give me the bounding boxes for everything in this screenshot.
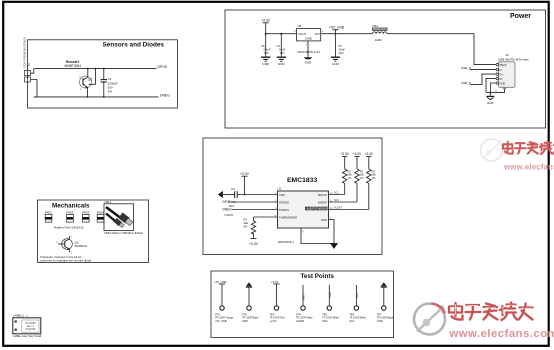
svg-text:TP4: TP4: [296, 313, 301, 317]
wire shield to gnd: [486, 87, 506, 93]
svg-text:Mechanicals: Mechanicals: [52, 203, 90, 210]
resistor R3: [355, 157, 365, 202]
svg-text:16V: 16V: [339, 51, 344, 55]
svg-text:J1: J1: [28, 62, 31, 66]
wire U5 gnd stub: [307, 41, 309, 57]
svg-text:GND: GND: [305, 37, 313, 41]
svg-text:LABEL Assy Very Small: LABEL Assy Very Small: [13, 334, 42, 338]
svg-text:VBUS: VBUS: [500, 63, 507, 67]
test point TP7: [377, 283, 394, 323]
Mechanicals box: [38, 200, 149, 263]
svg-text:SDA: SDA: [334, 199, 339, 202]
svg-text:D+: D+: [500, 73, 504, 77]
svg-text:1: 1: [56, 241, 58, 244]
svg-text:PAD3: PAD3: [82, 211, 89, 215]
svg-text:TP7: TP7: [377, 313, 382, 317]
svg-text:PAD2: PAD2: [66, 211, 73, 215]
svg-text:DP/DN2: DP/DN2: [279, 200, 289, 204]
wire VDD: [237, 194, 277, 196]
svg-text:2: 2: [305, 44, 307, 47]
test point TP3: [270, 280, 286, 323]
svg-text:GND: GND: [500, 81, 506, 85]
wire THERM/ADDR: [224, 213, 278, 217]
svg-text:U1: U1: [278, 187, 282, 191]
svg-text:customer to evaluate the remot: customer to evaluate the remote diode: [40, 259, 92, 263]
wire +3.3V rail: [266, 23, 297, 34]
ground J2: [486, 93, 494, 105]
note text transistor: [40, 255, 92, 263]
wire FB1 to J2 VBUS: [387, 34, 496, 65]
svg-text:2N3904A: 2N3904A: [75, 244, 88, 248]
svg-text:TP1: TP1: [215, 313, 220, 317]
resistor R5: [366, 157, 376, 210]
svg-text:PAD4: PAD4: [97, 211, 104, 215]
svg-text:VDD: VDD: [279, 193, 285, 197]
watermark logo bottom right: [414, 304, 445, 335]
svg-text:TP6: TP6: [349, 313, 354, 317]
svg-text:FB1: FB1: [373, 24, 379, 28]
EMC1833 title: [287, 177, 317, 184]
connector J1: [23, 37, 31, 82]
node DPOS: [223, 200, 232, 204]
pad PAD1: [45, 211, 52, 222]
capacitor C1: [101, 68, 118, 98]
wire SMCLK: [329, 192, 345, 195]
ground C6: [261, 57, 270, 66]
Mechanicals title: [52, 203, 90, 210]
power flag +3.3V at VDD: [240, 172, 250, 195]
resistor R2: [342, 157, 352, 195]
wire ID to gnd net: [486, 79, 496, 93]
node DPOS: [158, 65, 168, 69]
svg-text:USB A Male to USB Micro-B Male: USB A Male to USB Micro-B Male: [104, 231, 143, 235]
svg-text:PAD1: PAD1: [45, 211, 52, 215]
svg-text:DPOS: DPOS: [223, 200, 232, 204]
svg-text:GND: GND: [332, 62, 340, 66]
svg-text:9: 9: [302, 232, 304, 234]
svg-text:LABEL1: LABEL1: [13, 314, 24, 318]
svg-text:Sensors and Diodes: Sensors and Diodes: [103, 42, 165, 49]
node +5V_USB flag: [329, 26, 345, 35]
svg-text:Q1: Q1: [88, 77, 92, 81]
power flag +3.3V inverted at R1: [249, 239, 259, 246]
svg-text:MMBT3904: MMBT3904: [65, 64, 82, 68]
node USB_P: [461, 81, 471, 85]
watermark CJK glyphs mid right (tile): [503, 141, 554, 154]
op chip U1 EMC1833: [275, 187, 333, 245]
svg-text:www.elecfans.com: www.elecfans.com: [503, 163, 554, 172]
watermark www.elecfans.com bottom right: [449, 328, 554, 340]
node DNEG: [223, 208, 233, 212]
Sensors and Diodes box: [28, 40, 178, 108]
pad PAD2: [66, 211, 73, 222]
Sensors and Diodes title: [103, 42, 165, 49]
label Remote1 MMBT3904: [65, 60, 82, 68]
svg-text:GND: GND: [487, 101, 495, 105]
wire bottom pin routing: [301, 228, 335, 244]
svg-text:+5V_USB: +5V_USB: [215, 319, 227, 323]
capacitor C6: [261, 33, 271, 57]
svg-text:GND: GND: [278, 62, 286, 66]
svg-text:DNEG: DNEG: [160, 93, 170, 97]
svg-text:TP5: TP5: [322, 313, 327, 317]
watermark logo mid right (faint tile): [481, 139, 503, 161]
svg-text:GND: GND: [305, 60, 313, 64]
svg-text:5%: 5%: [108, 90, 113, 94]
Power title: [510, 13, 531, 20]
watermark www.elecfans.com mid right (tile): [503, 163, 554, 172]
svg-text:USB_P: USB_P: [461, 81, 471, 85]
svg-text:SDA: SDA: [322, 319, 328, 323]
svg-text:DNEG: DNEG: [223, 208, 233, 212]
wire GND pin routing: [329, 220, 335, 244]
pad PAD4: [97, 211, 104, 222]
pullup rail flags +3.3V x3: [340, 152, 373, 156]
connector J2: [496, 53, 529, 87]
wire bottom rail DNEG: [34, 96, 159, 98]
Test Points box: [211, 271, 394, 338]
wire GND pin down: [491, 83, 496, 92]
svg-text:Rubber Feet SJ61A12: Rubber Feet SJ61A12: [54, 225, 84, 229]
label LABEL1: [13, 314, 42, 338]
regulator U5: [294, 24, 324, 54]
wire DN/DP1: [232, 209, 278, 211]
svg-text:ALERT: ALERT: [334, 207, 342, 210]
svg-text:+5V_USB: +5V_USB: [329, 26, 345, 30]
svg-text:USB_N: USB_N: [461, 66, 471, 70]
svg-text:SCL: SCL: [355, 292, 359, 298]
transistor Q2: [56, 236, 88, 255]
svg-text:Alert: Alert: [302, 294, 306, 300]
svg-text:EMC1833-1: EMC1833-1: [278, 240, 294, 244]
capacitor C4: [277, 33, 286, 57]
test point TP4: [296, 285, 313, 323]
svg-text:+3.3V: +3.3V: [261, 19, 271, 23]
capacitor C3: [223, 187, 238, 208]
svg-text:THERM: THERM: [224, 213, 233, 217]
ground C4: [277, 57, 286, 66]
svg-text:+3.3V: +3.3V: [340, 152, 349, 156]
svg-text:GND: GND: [262, 62, 270, 66]
svg-text:SMCLK: SMCLK: [318, 193, 327, 197]
svg-text:+3.3V: +3.3V: [270, 319, 277, 323]
svg-text:SN12345: SN12345: [25, 328, 36, 331]
svg-text:+3.3V: +3.3V: [249, 242, 259, 246]
svg-text:ID: ID: [500, 77, 503, 81]
svg-text:+3.3V: +3.3V: [271, 280, 279, 284]
EMC1833 box: [203, 138, 382, 255]
wire DP/DN2: [232, 201, 278, 203]
label cable: [104, 231, 143, 235]
svg-text:USB MICRO B Female: USB MICRO B Female: [498, 57, 529, 61]
svg-text:16V: 16V: [280, 51, 285, 55]
svg-text:SCL: SCL: [334, 192, 339, 195]
wire connector pin1 to top rail: [31, 69, 34, 74]
svg-text:ALERT: ALERT: [296, 319, 305, 323]
svg-text:3: 3: [294, 30, 296, 33]
wire Q1 emitter to bottom rail: [87, 88, 89, 98]
svg-text:+3.3V: +3.3V: [240, 172, 250, 176]
wire USB_P to D+: [470, 74, 496, 84]
svg-text:Power: Power: [510, 13, 531, 20]
svg-text:MCP1825S-3.3V: MCP1825S-3.3V: [298, 50, 321, 54]
svg-text:GND: GND: [242, 319, 248, 323]
test point TP5: [322, 285, 339, 323]
wire Q1 collector to top rail: [87, 68, 89, 77]
Power box: [225, 10, 546, 128]
svg-text:DPOS: DPOS: [158, 65, 168, 69]
svg-text:Test Points: Test Points: [301, 273, 335, 280]
svg-text:+3.3V: +3.3V: [353, 152, 362, 156]
test point TP6: [349, 285, 366, 323]
svg-text:+5V_USB: +5V_USB: [214, 280, 226, 284]
svg-text:GND: GND: [377, 319, 383, 323]
svg-text:1: 1: [80, 88, 82, 91]
svg-text:J2: J2: [506, 53, 510, 57]
svg-text:EMC1833: EMC1833: [287, 177, 317, 184]
ground U5: [304, 57, 313, 64]
svg-text:C1: C1: [108, 77, 112, 81]
wire ALERT: [329, 207, 369, 210]
test point TP2: [242, 283, 259, 323]
svg-text:TP2: TP2: [242, 313, 247, 317]
capacitor C5: [335, 34, 345, 57]
ground U1: [330, 244, 338, 249]
svg-text:VIN: VIN: [314, 32, 319, 36]
test point TP1: [214, 280, 234, 323]
ground C5: [331, 57, 340, 66]
node USB_N: [461, 66, 471, 70]
Test Points title: [301, 273, 335, 280]
svg-text:GND: GND: [321, 218, 327, 222]
svg-text:www.elecfans.com: www.elecfans.com: [449, 328, 554, 340]
svg-text:VOUT: VOUT: [298, 32, 307, 36]
ferrite bead FB1: [373, 24, 388, 42]
resistor R1: [244, 217, 256, 239]
power flag +3.3V: [261, 19, 271, 23]
wire Q1 base tie loop: [89, 68, 97, 85]
svg-text:TP3: TP3: [270, 313, 275, 317]
wire USB_N to D-: [470, 69, 496, 71]
svg-text:C3: C3: [231, 187, 235, 191]
node DNEG: [160, 93, 170, 97]
label rubber feet: [54, 225, 84, 229]
cable CBL1: [104, 200, 134, 230]
svg-text:CON-TERM BLOCK(2): CON-TERM BLOCK(2): [23, 37, 27, 68]
svg-text:1: 1: [322, 30, 324, 33]
svg-text:+3.3V: +3.3V: [365, 152, 374, 156]
watermark CJK glyphs bottom right: [449, 303, 533, 321]
wire connector pin2 to bottom rail: [31, 80, 38, 97]
svg-text:SCL: SCL: [349, 319, 355, 323]
pad PAD3: [82, 211, 89, 222]
svg-text:THERM/ADDR: THERM/ADDR: [279, 215, 297, 219]
wire SMDAT: [329, 199, 358, 202]
svg-text:SDA: SDA: [328, 292, 332, 298]
svg-text:D-: D-: [500, 68, 503, 72]
wire top rail DPOS: [34, 68, 157, 70]
svg-text:5%: 5%: [244, 224, 249, 228]
ground C3 left-facing: [218, 191, 223, 198]
svg-text:ALERT/THERM2: ALERT/THERM2: [307, 207, 328, 211]
svg-text:SMDAT: SMDAT: [318, 200, 328, 204]
svg-text:2: 2: [71, 236, 73, 239]
wire +5V rail: [321, 33, 373, 35]
svg-text:U5: U5: [298, 24, 302, 28]
svg-text:DN/DP1: DN/DP1: [279, 208, 289, 212]
transistor Q1: [79, 76, 92, 91]
svg-text:16V: 16V: [264, 51, 269, 55]
svg-text:120R: 120R: [375, 38, 383, 42]
watermark CJK white veins bottom right: [450, 304, 532, 315]
